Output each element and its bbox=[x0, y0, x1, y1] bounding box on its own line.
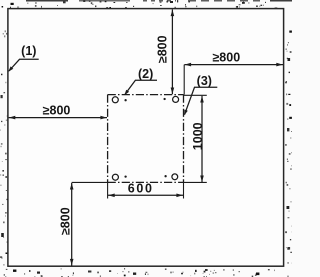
dimension 600 (pad width) bbox=[108, 182, 184, 198]
anchor hole top-right bbox=[173, 96, 179, 102]
extension line pad right edge up bbox=[183, 65, 185, 95]
callout label (3) bbox=[184, 74, 217, 115]
center mark dot top-left bbox=[124, 99, 126, 101]
center mark dot bottom-left bbox=[124, 175, 126, 177]
anchor hole bottom-left bbox=[112, 174, 118, 180]
extension line pad bottom edge left bbox=[72, 181, 108, 183]
pad left edge bbox=[107, 95, 109, 183]
svg-text:(3): (3) bbox=[197, 74, 212, 88]
dimension 1000 (pad height) bbox=[191, 96, 205, 182]
extension line pad top edge right bbox=[184, 94, 207, 96]
callout label (1) bbox=[8, 44, 38, 72]
svg-text:≥800: ≥800 bbox=[212, 51, 240, 65]
callout label (2) bbox=[124, 67, 157, 95]
svg-text:≥800: ≥800 bbox=[43, 104, 71, 118]
equipment pad outline (chain line rectangle) bbox=[108, 95, 184, 183]
extension line pad left corner down bbox=[107, 182, 109, 198]
anchor hole bottom-right bbox=[172, 174, 178, 180]
pad top edge bbox=[108, 94, 184, 96]
center mark dot top-right bbox=[163, 98, 165, 100]
dimension right >=800 bbox=[184, 51, 283, 67]
svg-text:(1): (1) bbox=[21, 44, 36, 58]
dimension top >=800 bbox=[155, 9, 174, 94]
svg-text:≥800: ≥800 bbox=[155, 35, 169, 63]
svg-text:≥800: ≥800 bbox=[59, 207, 73, 235]
extension line pad right corner down bbox=[183, 182, 185, 198]
extension line pad bottom edge right bbox=[184, 181, 207, 183]
svg-text:(2): (2) bbox=[138, 67, 153, 81]
svg-text:600: 600 bbox=[128, 182, 154, 196]
dimension left >=800 bbox=[9, 104, 107, 120]
pad bottom edge bbox=[108, 181, 184, 183]
dimension bottom >=800 bbox=[59, 183, 74, 266]
center mark dot bottom-right bbox=[164, 175, 166, 177]
anchor hole top-left bbox=[112, 97, 118, 103]
pad right edge bbox=[183, 95, 185, 183]
svg-text:1000: 1000 bbox=[191, 122, 205, 150]
top image edge broken line bbox=[26, 0, 292, 2]
